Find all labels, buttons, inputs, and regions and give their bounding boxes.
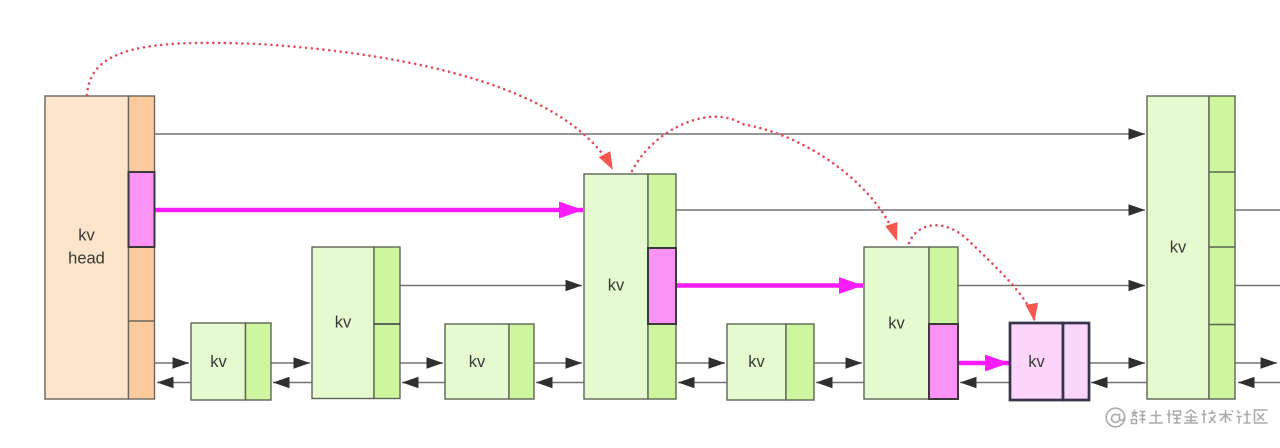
node C level column xyxy=(509,324,534,399)
node E level column xyxy=(786,324,814,400)
wire L2 magenta D to F xyxy=(676,283,863,288)
svg-text:kv: kv xyxy=(748,353,765,371)
wire L1 back B to A xyxy=(273,382,312,384)
node F main xyxy=(864,247,929,399)
wire L1 forward D to E xyxy=(676,362,725,364)
node F magenta cell L1 xyxy=(929,324,958,399)
svg-text:head: head xyxy=(68,249,105,267)
wire L1 back G to F xyxy=(960,382,1010,384)
red dotted search curve 2 D to F xyxy=(632,117,897,241)
watermark char xi (stylized) xyxy=(1132,410,1146,424)
node head level column xyxy=(129,96,155,399)
svg-text:kv: kv xyxy=(210,353,227,371)
wire L1 forward A to B xyxy=(271,362,310,364)
node F level column xyxy=(929,247,958,399)
node D main xyxy=(584,174,648,399)
wire L3 magenta head to D xyxy=(155,208,583,213)
wire L1 forward G to H xyxy=(1089,362,1145,364)
svg-text:kv: kv xyxy=(1170,238,1187,256)
svg-text:kv: kv xyxy=(78,226,95,244)
wire L1 magenta F to G xyxy=(958,361,1009,366)
wire L1 back A to head xyxy=(157,382,191,384)
wire L1 forward B to C xyxy=(400,362,443,364)
wire L1 forward H to edge xyxy=(1235,362,1277,364)
red dotted search curve 3 F to G xyxy=(909,225,1035,321)
node A level column xyxy=(246,323,272,400)
node D level column xyxy=(648,174,676,399)
wire L3 H to edge xyxy=(1235,209,1280,211)
svg-text:kv: kv xyxy=(469,353,486,371)
node A main xyxy=(191,323,246,400)
wire L2 F to H xyxy=(958,285,1145,287)
wire L1 back D to C xyxy=(536,382,584,384)
watermark char shu (stylized) xyxy=(1219,410,1233,423)
svg-text:kv: kv xyxy=(888,314,905,332)
watermark char qu (stylized) xyxy=(1255,410,1268,423)
wire L4 head to H xyxy=(155,133,1146,135)
node G main pink xyxy=(1010,323,1063,400)
red dotted search curve 1 head to D xyxy=(87,43,613,170)
watermark char ji (stylized) xyxy=(1202,410,1216,423)
wire L2 H to edge xyxy=(1235,285,1280,287)
svg-text:kv: kv xyxy=(608,276,625,294)
watermark char jin (stylized) xyxy=(1184,410,1198,423)
node B level column xyxy=(374,247,400,399)
svg-text:kv: kv xyxy=(335,313,352,331)
wire L3 D to H xyxy=(676,209,1145,211)
wire L1 back H to G xyxy=(1091,382,1147,384)
wire L1 back C to B xyxy=(402,382,445,384)
wire L1 forward C to D xyxy=(534,362,582,364)
wire L1 forward E to F xyxy=(814,362,862,364)
node B main xyxy=(312,247,374,399)
node head main xyxy=(45,96,129,399)
node D magenta cell L2 xyxy=(648,248,676,324)
node head magenta cell L3 xyxy=(129,172,155,247)
watermark char tu (stylized) xyxy=(1149,411,1163,424)
watermark at-sign xyxy=(1106,408,1125,427)
node H main xyxy=(1147,96,1209,399)
wire L1 back edge to H xyxy=(1238,382,1280,384)
wire L1 forward head to A xyxy=(155,362,190,364)
wire L1 back E to D xyxy=(678,382,727,384)
node E main xyxy=(727,324,786,400)
node C main xyxy=(445,324,509,399)
node G level column pink xyxy=(1063,323,1089,400)
watermark char she (stylized) xyxy=(1237,411,1251,424)
wire L2 B to D xyxy=(400,285,582,287)
wire L1 back F to E xyxy=(816,382,864,384)
node H level column xyxy=(1209,96,1235,399)
watermark char jue (stylized) xyxy=(1167,410,1181,423)
svg-text:kv: kv xyxy=(1028,353,1045,371)
